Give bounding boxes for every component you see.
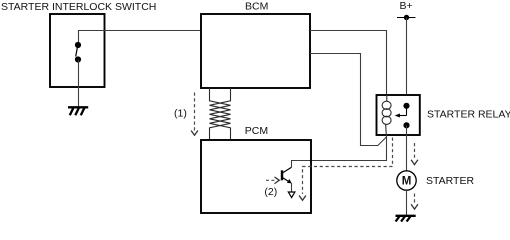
switch box (starter interlock switch enclosure) xyxy=(50,14,105,87)
ground G2 (below starter motor) xyxy=(396,216,416,222)
svg-text:PCM: PCM xyxy=(245,125,268,137)
svg-text:M: M xyxy=(402,176,412,188)
dashed current flow arrow from relay to starter xyxy=(411,143,418,165)
svg-text:BCM: BCM xyxy=(245,0,268,12)
PCM module box U2 xyxy=(201,140,311,213)
wire from switch top contact up and right to BCM xyxy=(79,31,202,45)
transistor Q1 (NPN output driver in PCM) xyxy=(282,160,292,192)
switch S1 (open contact, two dots and blade) xyxy=(75,42,81,63)
svg-text:B+: B+ xyxy=(400,0,413,12)
wire relay contact bottom down to starter motor xyxy=(406,125,408,171)
emitter open arrowhead (current out of transistor) xyxy=(288,192,295,198)
BCM module box U1 xyxy=(201,14,310,88)
starter motor M1 xyxy=(397,171,416,190)
dashed current path from relay coil through PCM transistor xyxy=(299,138,392,201)
wire from switch bottom contact down to ground xyxy=(78,60,80,108)
svg-text:STARTER INTERLOCK SWITCH: STARTER INTERLOCK SWITCH xyxy=(1,1,156,13)
svg-text:(2): (2) xyxy=(264,186,277,198)
wire relay coil bottom node down to transistor collector xyxy=(292,135,387,161)
relay coil L1 xyxy=(382,95,391,135)
annotation arrow (2) dashed signal into transistor base xyxy=(266,177,279,184)
wire BCM right pin 1 to starter relay coil top xyxy=(310,31,387,96)
wire B+ down to relay contact xyxy=(406,18,408,96)
relay contact (two dots and armature arrow) xyxy=(395,103,410,129)
annotation arrow (1) dashed signal from BCM to PCM xyxy=(191,93,198,136)
svg-text:STARTER: STARTER xyxy=(426,175,474,187)
starter relay box K1 xyxy=(377,95,420,135)
B+ terminal (bar and junction dot) xyxy=(397,15,416,20)
dashed current flow arrow from starter to ground xyxy=(411,194,418,210)
svg-text:STARTER RELAY: STARTER RELAY xyxy=(427,108,510,120)
svg-text:(1): (1) xyxy=(174,108,187,120)
resistor R1 (printed resistor between BCM and PCM) xyxy=(210,88,231,140)
ground G1 (below interlock switch) xyxy=(68,107,88,115)
wire starter motor down to ground xyxy=(406,190,408,215)
wire BCM right pin 2 to starter relay coil bottom xyxy=(310,54,386,146)
